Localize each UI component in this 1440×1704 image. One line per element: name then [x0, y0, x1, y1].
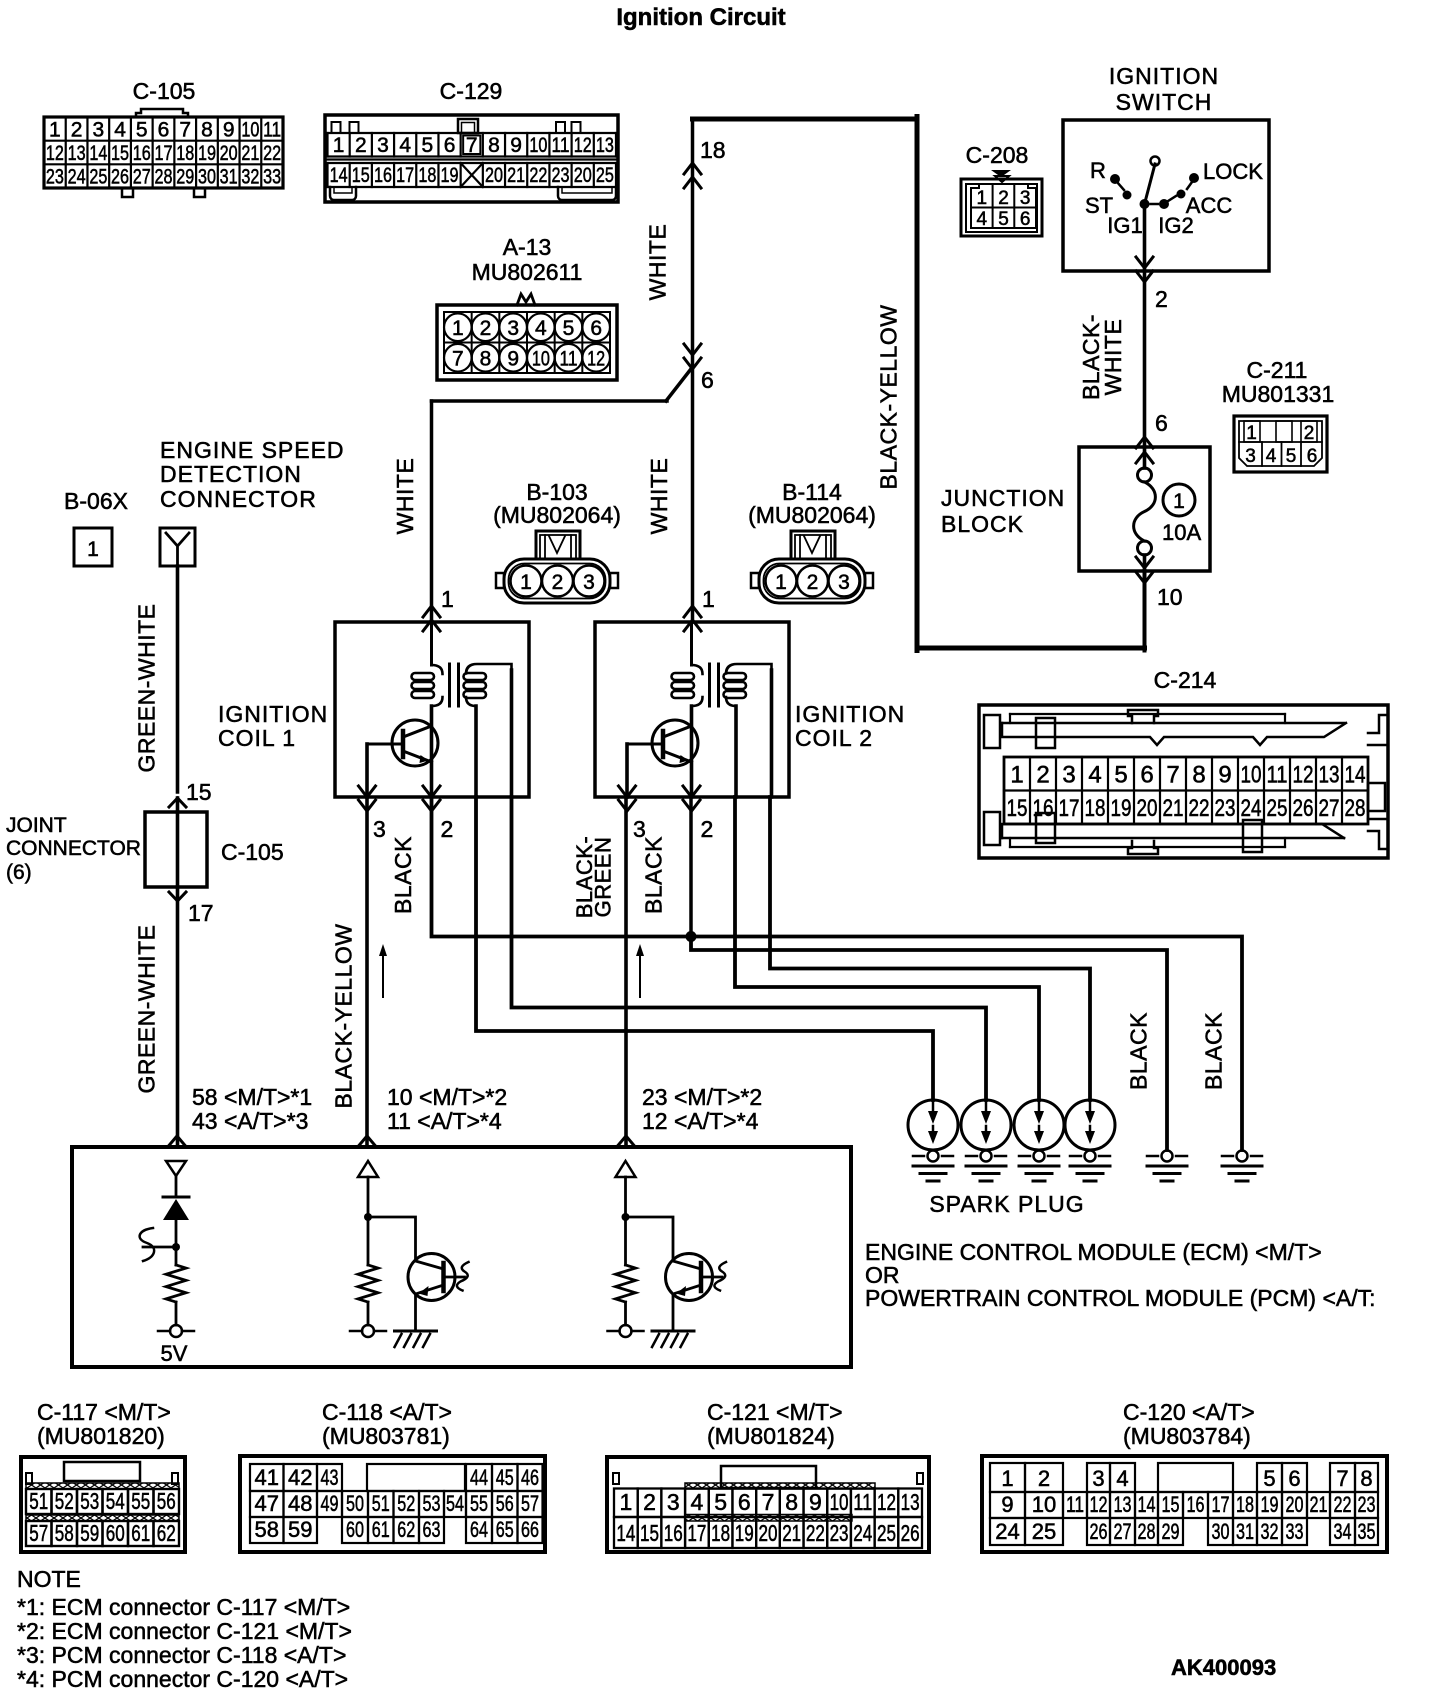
svg-text:7: 7 [466, 134, 478, 157]
svg-text:57: 57 [521, 1491, 539, 1516]
svg-text:27: 27 [1319, 795, 1340, 822]
svg-text:1: 1 [775, 571, 787, 594]
svg-text:JOINT: JOINT [6, 814, 67, 837]
svg-text:3: 3 [1245, 446, 1256, 467]
svg-text:16: 16 [664, 1520, 683, 1546]
svg-text:3: 3 [507, 317, 519, 340]
svg-text:4: 4 [114, 118, 126, 141]
svg-text:13: 13 [596, 134, 614, 157]
svg-text:5: 5 [136, 118, 148, 141]
svg-text:BLACK-YELLOW: BLACK-YELLOW [331, 924, 357, 1109]
svg-text:10: 10 [1241, 762, 1262, 789]
svg-text:10: 10 [241, 118, 259, 141]
svg-text:2: 2 [1155, 286, 1168, 312]
svg-text:SPARK PLUG: SPARK PLUG [929, 1191, 1084, 1217]
svg-text:29: 29 [176, 166, 194, 189]
svg-text:6: 6 [444, 134, 456, 157]
svg-text:11: 11 [1267, 762, 1288, 789]
svg-text:1: 1 [452, 317, 464, 340]
svg-text:5: 5 [1114, 762, 1127, 789]
svg-text:R: R [1090, 158, 1106, 183]
svg-text:1: 1 [1173, 490, 1185, 513]
svg-text:10: 10 [529, 134, 547, 157]
svg-text:(MU803781): (MU803781) [322, 1423, 450, 1449]
svg-text:2: 2 [1304, 423, 1315, 444]
svg-text:POWERTRAIN CONTROL MODULE (PCM: POWERTRAIN CONTROL MODULE (PCM) <A/T: [865, 1285, 1376, 1311]
svg-text:54: 54 [106, 1488, 125, 1514]
svg-text:3: 3 [1092, 1466, 1104, 1491]
svg-text:6: 6 [590, 317, 602, 340]
svg-text:23: 23 [46, 166, 64, 189]
svg-text:12: 12 [877, 1489, 896, 1515]
svg-text:10: 10 [532, 347, 550, 370]
svg-text:55: 55 [131, 1488, 150, 1514]
svg-text:12: 12 [1293, 762, 1314, 789]
svg-text:(MU801824): (MU801824) [707, 1423, 835, 1449]
svg-text:47: 47 [255, 1491, 279, 1516]
svg-text:MU802611: MU802611 [472, 259, 583, 285]
svg-text:57: 57 [29, 1520, 48, 1546]
svg-text:18: 18 [418, 164, 436, 187]
svg-text:3: 3 [92, 118, 104, 141]
svg-text:1: 1 [1001, 1466, 1013, 1491]
svg-text:2: 2 [71, 118, 83, 141]
svg-text:53: 53 [80, 1488, 99, 1514]
svg-text:8: 8 [480, 347, 492, 370]
svg-text:ENGINE CONTROL MODULE (ECM) <M: ENGINE CONTROL MODULE (ECM) <M/T> [865, 1239, 1322, 1265]
svg-text:9: 9 [507, 347, 519, 370]
svg-text:12 <A/T>*4: 12 <A/T>*4 [642, 1108, 759, 1134]
svg-text:14: 14 [1138, 1492, 1156, 1517]
svg-text:26: 26 [1293, 795, 1314, 822]
svg-text:26: 26 [901, 1520, 920, 1546]
svg-text:16: 16 [1187, 1492, 1205, 1517]
svg-text:12: 12 [587, 347, 605, 370]
svg-text:22: 22 [1189, 795, 1210, 822]
svg-text:C-121 <M/T>: C-121 <M/T> [707, 1399, 843, 1425]
svg-text:9: 9 [1001, 1492, 1013, 1517]
svg-text:1: 1 [49, 118, 61, 141]
svg-text:11: 11 [263, 118, 281, 141]
svg-text:20: 20 [1137, 795, 1158, 822]
svg-text:3: 3 [377, 134, 389, 157]
svg-text:8: 8 [785, 1489, 798, 1515]
svg-text:63: 63 [423, 1517, 441, 1542]
svg-text:AK400093: AK400093 [1171, 1655, 1276, 1680]
svg-text:15: 15 [186, 779, 212, 805]
svg-text:15: 15 [1162, 1492, 1180, 1517]
svg-text:2: 2 [355, 134, 367, 157]
svg-text:16: 16 [374, 164, 392, 187]
svg-text:5: 5 [714, 1489, 727, 1515]
svg-text:62: 62 [157, 1520, 176, 1546]
svg-text:WHITE: WHITE [645, 224, 671, 301]
svg-text:58: 58 [255, 1517, 279, 1542]
svg-text:14: 14 [1345, 762, 1366, 789]
svg-text:GREEN-WHITE: GREEN-WHITE [134, 924, 160, 1093]
svg-text:IG2: IG2 [1158, 213, 1193, 238]
svg-text:IGNITION: IGNITION [1109, 63, 1219, 89]
svg-text:ENGINE SPEED: ENGINE SPEED [160, 437, 345, 463]
svg-text:24: 24 [68, 166, 86, 189]
svg-text:COIL 1: COIL 1 [218, 725, 296, 751]
svg-text:23 <M/T>*2: 23 <M/T>*2 [642, 1084, 762, 1110]
svg-text:21: 21 [1310, 1492, 1328, 1517]
svg-text:19: 19 [1111, 795, 1132, 822]
svg-text:5: 5 [422, 134, 434, 157]
svg-text:61: 61 [372, 1517, 390, 1542]
svg-text:7: 7 [452, 347, 464, 370]
svg-text:42: 42 [288, 1465, 312, 1490]
svg-text:10: 10 [1032, 1492, 1056, 1517]
svg-text:65: 65 [496, 1517, 514, 1542]
svg-text:1: 1 [520, 571, 532, 594]
svg-text:2: 2 [552, 571, 564, 594]
svg-text:BLACK: BLACK [641, 836, 667, 914]
svg-text:*3: PCM connector C-118 <A/T>: *3: PCM connector C-118 <A/T> [17, 1642, 346, 1668]
svg-text:15: 15 [352, 164, 370, 187]
svg-text:50: 50 [346, 1491, 364, 1516]
svg-text:8: 8 [201, 118, 213, 141]
svg-text:*1: ECM connector C-117 <M/T>: *1: ECM connector C-117 <M/T> [17, 1594, 350, 1620]
svg-text:28: 28 [1345, 795, 1366, 822]
svg-text:15: 15 [111, 142, 129, 165]
svg-text:BLOCK: BLOCK [941, 511, 1024, 537]
svg-text:18: 18 [1085, 795, 1106, 822]
svg-text:20: 20 [485, 164, 503, 187]
svg-text:2: 2 [701, 816, 714, 842]
svg-text:*2: ECM connector C-121 <M/T>: *2: ECM connector C-121 <M/T> [17, 1618, 352, 1644]
svg-text:4: 4 [1116, 1466, 1128, 1491]
svg-text:3: 3 [667, 1489, 680, 1515]
svg-text:22: 22 [263, 142, 281, 165]
svg-text:1: 1 [619, 1489, 632, 1515]
svg-text:61: 61 [131, 1520, 150, 1546]
svg-text:14: 14 [616, 1520, 635, 1546]
svg-text:C-120 <A/T>: C-120 <A/T> [1123, 1399, 1255, 1425]
svg-text:25: 25 [1267, 795, 1288, 822]
svg-text:26: 26 [111, 166, 129, 189]
svg-text:25: 25 [877, 1520, 896, 1546]
svg-text:17: 17 [687, 1520, 706, 1546]
svg-text:16: 16 [133, 142, 151, 165]
svg-text:1: 1 [333, 134, 345, 157]
svg-text:22: 22 [806, 1520, 825, 1546]
svg-text:WHITE: WHITE [392, 458, 418, 535]
svg-text:2: 2 [441, 816, 454, 842]
svg-text:C-211: C-211 [1247, 357, 1308, 383]
svg-text:8: 8 [1192, 762, 1205, 789]
svg-text:2: 2 [998, 188, 1009, 209]
svg-text:43: 43 [321, 1465, 339, 1490]
svg-text:64: 64 [470, 1517, 488, 1542]
svg-text:15: 15 [640, 1520, 659, 1546]
svg-text:13: 13 [1114, 1492, 1132, 1517]
svg-text:12: 12 [46, 142, 64, 165]
svg-text:COIL 2: COIL 2 [795, 725, 873, 751]
svg-text:13: 13 [68, 142, 86, 165]
svg-text:6: 6 [1140, 762, 1153, 789]
svg-text:10A: 10A [1162, 520, 1201, 545]
svg-text:34: 34 [1334, 1519, 1352, 1544]
svg-text:19: 19 [441, 164, 459, 187]
svg-text:11 <A/T>*4: 11 <A/T>*4 [387, 1108, 502, 1134]
svg-text:56: 56 [157, 1488, 176, 1514]
svg-text:3: 3 [838, 571, 850, 594]
svg-text:11: 11 [1066, 1492, 1084, 1517]
svg-text:51: 51 [29, 1488, 48, 1514]
svg-text:23: 23 [1215, 795, 1236, 822]
svg-text:C-105: C-105 [221, 839, 284, 865]
svg-text:9: 9 [223, 118, 235, 141]
svg-text:49: 49 [321, 1491, 339, 1516]
svg-text:(MU802064): (MU802064) [748, 502, 876, 528]
svg-text:3: 3 [1062, 762, 1075, 789]
svg-text:19: 19 [198, 142, 216, 165]
svg-text:Ignition Circuit: Ignition Circuit [616, 4, 785, 31]
svg-text:15: 15 [1007, 795, 1028, 822]
svg-text:C-214: C-214 [1154, 667, 1217, 693]
svg-text:32: 32 [1261, 1519, 1279, 1544]
svg-text:31: 31 [1236, 1519, 1254, 1544]
svg-text:7: 7 [179, 118, 191, 141]
svg-text:10 <M/T>*2: 10 <M/T>*2 [387, 1084, 507, 1110]
svg-text:11: 11 [552, 134, 570, 157]
svg-text:4: 4 [399, 134, 411, 157]
svg-text:17: 17 [396, 164, 414, 187]
svg-text:8: 8 [1360, 1466, 1372, 1491]
svg-text:7: 7 [1166, 762, 1179, 789]
svg-text:IGNITION: IGNITION [795, 701, 905, 727]
svg-text:33: 33 [1286, 1519, 1304, 1544]
svg-text:9: 9 [1218, 762, 1231, 789]
svg-text:48: 48 [288, 1491, 312, 1516]
svg-text:4: 4 [977, 209, 988, 230]
svg-text:LOCK: LOCK [1203, 159, 1263, 184]
svg-text:5: 5 [563, 317, 575, 340]
svg-text:30: 30 [1212, 1519, 1230, 1544]
svg-text:4: 4 [1088, 762, 1101, 789]
svg-text:17: 17 [188, 900, 214, 926]
svg-text:25: 25 [89, 166, 107, 189]
svg-text:IG1: IG1 [1107, 213, 1142, 238]
svg-text:27: 27 [1114, 1519, 1132, 1544]
svg-text:(MU803784): (MU803784) [1123, 1423, 1251, 1449]
svg-text:C-105: C-105 [133, 78, 196, 104]
svg-text:3: 3 [373, 816, 386, 842]
svg-text:4: 4 [691, 1489, 704, 1515]
svg-text:22: 22 [529, 164, 547, 187]
svg-text:12: 12 [1090, 1492, 1108, 1517]
svg-text:55: 55 [470, 1491, 488, 1516]
svg-text:13: 13 [1319, 762, 1340, 789]
svg-text:12: 12 [574, 134, 592, 157]
svg-text:45: 45 [496, 1465, 514, 1490]
svg-text:25: 25 [1032, 1519, 1056, 1544]
svg-text:2: 2 [480, 317, 492, 340]
svg-text:28: 28 [155, 166, 173, 189]
svg-text:6: 6 [1307, 446, 1318, 467]
svg-text:BLACK-YELLOW: BLACK-YELLOW [876, 305, 902, 490]
svg-text:21: 21 [241, 142, 259, 165]
svg-text:IGNITION: IGNITION [218, 701, 328, 727]
svg-text:14: 14 [330, 164, 348, 187]
svg-text:20: 20 [759, 1520, 778, 1546]
svg-text:5V: 5V [161, 1341, 188, 1366]
svg-text:27: 27 [133, 166, 151, 189]
svg-text:22: 22 [1334, 1492, 1352, 1517]
svg-text:5: 5 [1263, 1466, 1275, 1491]
svg-text:1: 1 [702, 586, 715, 612]
svg-text:8: 8 [488, 134, 500, 157]
svg-text:20: 20 [1286, 1492, 1304, 1517]
svg-text:18: 18 [176, 142, 194, 165]
svg-text:10: 10 [1157, 584, 1183, 610]
svg-text:BLACK: BLACK [1201, 1012, 1227, 1090]
svg-text:B-06X: B-06X [64, 488, 128, 514]
svg-text:58 <M/T>*1: 58 <M/T>*1 [192, 1084, 312, 1110]
svg-text:4: 4 [1266, 446, 1277, 467]
svg-text:33: 33 [263, 166, 281, 189]
svg-text:6: 6 [158, 118, 170, 141]
svg-text:3: 3 [1020, 188, 1031, 209]
svg-text:59: 59 [288, 1517, 312, 1542]
svg-text:21: 21 [782, 1520, 801, 1546]
svg-text:JUNCTION: JUNCTION [941, 485, 1065, 511]
svg-text:24: 24 [1241, 795, 1262, 822]
svg-text:54: 54 [446, 1491, 464, 1516]
svg-text:60: 60 [346, 1517, 364, 1542]
svg-text:13: 13 [901, 1489, 920, 1515]
svg-text:44: 44 [470, 1465, 488, 1490]
svg-text:51: 51 [372, 1491, 390, 1516]
svg-text:9: 9 [809, 1489, 822, 1515]
svg-text:26: 26 [1090, 1519, 1108, 1544]
svg-text:6: 6 [738, 1489, 751, 1515]
svg-text:28: 28 [1138, 1519, 1156, 1544]
svg-text:7: 7 [1336, 1466, 1348, 1491]
svg-text:35: 35 [1358, 1519, 1376, 1544]
svg-text:WHITE: WHITE [1100, 319, 1126, 396]
svg-text:17: 17 [1212, 1492, 1230, 1517]
svg-text:1: 1 [87, 538, 99, 561]
svg-text:(MU802064): (MU802064) [493, 502, 621, 528]
svg-text:2: 2 [807, 571, 819, 594]
svg-text:62: 62 [397, 1517, 415, 1542]
svg-text:C-117 <M/T>: C-117 <M/T> [37, 1399, 171, 1425]
svg-text:DETECTION: DETECTION [160, 461, 302, 487]
svg-text:41: 41 [255, 1465, 279, 1490]
svg-text:2: 2 [1036, 762, 1049, 789]
svg-text:52: 52 [55, 1488, 74, 1514]
svg-text:60: 60 [106, 1520, 125, 1546]
svg-text:(MU801820): (MU801820) [37, 1423, 165, 1449]
svg-text:20: 20 [574, 164, 592, 187]
svg-text:21: 21 [507, 164, 525, 187]
svg-text:32: 32 [241, 166, 259, 189]
svg-text:C-208: C-208 [966, 142, 1029, 168]
svg-text:*4: PCM connector C-120 <A/T>: *4: PCM connector C-120 <A/T> [17, 1666, 348, 1692]
svg-text:11: 11 [560, 347, 578, 370]
svg-text:2: 2 [1038, 1466, 1050, 1491]
svg-text:66: 66 [521, 1517, 539, 1542]
svg-text:6: 6 [1020, 209, 1031, 230]
svg-text:58: 58 [55, 1520, 74, 1546]
svg-text:20: 20 [220, 142, 238, 165]
svg-text:29: 29 [1162, 1519, 1180, 1544]
svg-text:19: 19 [1261, 1492, 1279, 1517]
svg-text:21: 21 [1163, 795, 1184, 822]
svg-text:11: 11 [853, 1489, 872, 1515]
svg-text:18: 18 [1236, 1492, 1254, 1517]
svg-text:18: 18 [700, 137, 726, 163]
svg-text:18: 18 [711, 1520, 730, 1546]
svg-text:GREEN-WHITE: GREEN-WHITE [134, 603, 160, 772]
svg-text:1: 1 [441, 586, 454, 612]
svg-text:53: 53 [423, 1491, 441, 1516]
svg-text:24: 24 [853, 1520, 872, 1546]
svg-text:2: 2 [643, 1489, 656, 1515]
svg-text:24: 24 [995, 1519, 1019, 1544]
svg-text:SWITCH: SWITCH [1116, 89, 1213, 115]
svg-text:(6): (6) [6, 861, 32, 884]
svg-text:10: 10 [830, 1489, 849, 1515]
svg-text:3: 3 [583, 571, 595, 594]
svg-text:23: 23 [830, 1520, 849, 1546]
svg-text:43 <A/T>*3: 43 <A/T>*3 [192, 1108, 308, 1134]
svg-text:BLACK: BLACK [390, 836, 416, 914]
svg-text:17: 17 [1059, 795, 1080, 822]
svg-text:59: 59 [80, 1520, 99, 1546]
svg-text:CONNECTOR: CONNECTOR [6, 837, 141, 860]
svg-text:56: 56 [496, 1491, 514, 1516]
svg-text:25: 25 [596, 164, 614, 187]
svg-text:WHITE: WHITE [646, 458, 672, 535]
svg-text:23: 23 [1358, 1492, 1376, 1517]
svg-text:C-118 <A/T>: C-118 <A/T> [322, 1399, 452, 1425]
svg-text:MU801331: MU801331 [1222, 381, 1335, 407]
svg-text:6: 6 [1155, 410, 1168, 436]
svg-text:5: 5 [1286, 446, 1297, 467]
svg-text:19: 19 [735, 1520, 754, 1546]
svg-text:14: 14 [89, 142, 107, 165]
svg-text:4: 4 [535, 317, 547, 340]
svg-text:9: 9 [510, 134, 522, 157]
svg-text:1: 1 [1246, 423, 1257, 444]
svg-text:NOTE: NOTE [17, 1566, 81, 1592]
svg-text:6: 6 [701, 367, 714, 393]
svg-text:GREEN: GREEN [591, 837, 616, 918]
svg-text:CONNECTOR: CONNECTOR [160, 486, 317, 512]
svg-text:BLACK: BLACK [1126, 1012, 1152, 1090]
svg-text:A-13: A-13 [503, 234, 552, 260]
svg-text:31: 31 [220, 166, 238, 189]
svg-text:1: 1 [1010, 762, 1023, 789]
svg-text:5: 5 [998, 209, 1009, 230]
svg-text:30: 30 [198, 166, 216, 189]
svg-text:46: 46 [521, 1465, 539, 1490]
svg-text:52: 52 [397, 1491, 415, 1516]
svg-text:C-129: C-129 [440, 78, 503, 104]
svg-text:7: 7 [762, 1489, 775, 1515]
svg-text:1: 1 [977, 188, 988, 209]
svg-text:17: 17 [155, 142, 173, 165]
svg-text:23: 23 [552, 164, 570, 187]
svg-text:6: 6 [1288, 1466, 1300, 1491]
